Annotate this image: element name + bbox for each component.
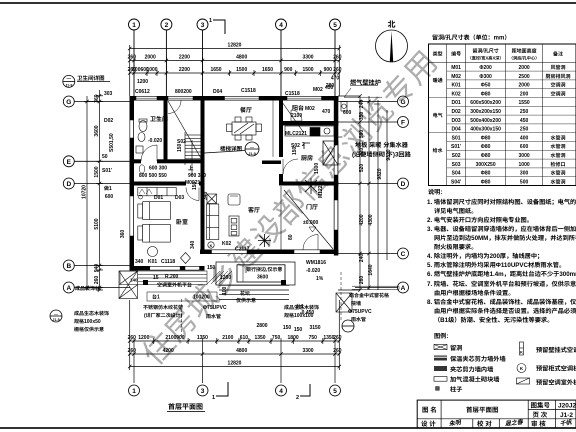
svg-text:K01: K01 — [148, 258, 157, 265]
svg-text:Φ300: Φ300 — [479, 73, 492, 80]
svg-text:470: 470 — [331, 75, 340, 82]
grid bubble A left — [63, 282, 74, 293]
window C1518 balcony — [287, 96, 322, 100]
svg-text:地板 采暖 分集水器: 地板 采暖 分集水器 — [355, 140, 409, 149]
legend 预留空调室外机 — [517, 378, 530, 384]
svg-text:S04: S04 — [452, 170, 461, 177]
svg-text:500: 500 — [520, 178, 529, 185]
svg-text:340: 340 — [189, 240, 196, 249]
svg-text:（直径/宽X高X深）: （直径/宽X高X深） — [468, 56, 504, 62]
svg-text:150: 150 — [176, 143, 183, 152]
svg-text:电气: 电气 — [433, 112, 443, 119]
stair labels — [176, 138, 206, 190]
svg-text:(沿便墙侧砌 下)3回路: (沿便墙侧砌 下)3回路 — [352, 150, 412, 159]
svg-text:Φ80: Φ80 — [481, 143, 491, 150]
svg-text:1: 1 — [209, 16, 212, 24]
section mark 1 bottom — [216, 382, 228, 396]
svg-text:—: — — [250, 144, 254, 150]
svg-text:1350: 1350 — [254, 334, 265, 341]
wall left exterior — [130, 96, 135, 271]
washer box — [136, 146, 143, 153]
svg-text:S501,50: S501,50 — [108, 133, 115, 152]
svg-text:F: F — [401, 117, 405, 127]
svg-text:2: 2 — [296, 393, 299, 401]
grid bubble C right — [398, 248, 409, 259]
svg-text:由用户根据实际条件选择是否设置。选择的产品必须符合国: 由用户根据实际条件选择是否设置。选择的产品必须符合国 — [434, 306, 576, 315]
svg-text:3600: 3600 — [257, 274, 268, 281]
wall bottom C — [200, 250, 338, 255]
steps — [219, 284, 289, 286]
svg-text:-0.020: -0.020 — [306, 267, 320, 274]
svg-text:260: 260 — [358, 276, 365, 285]
svg-text:600 300: 600 300 — [149, 165, 167, 172]
coffee table — [229, 216, 239, 236]
svg-text:360: 360 — [119, 230, 126, 239]
svg-text:K01: K01 — [452, 82, 461, 89]
svg-text:编号: 编号 — [451, 51, 461, 58]
detail callout circle 卫生间详图 — [63, 75, 75, 87]
svg-text:D01: D01 — [452, 99, 461, 106]
svg-text:1200: 1200 — [220, 274, 231, 281]
svg-text:首层平面图: 首层平面图 — [466, 404, 499, 414]
dining screen line — [272, 100, 274, 157]
svg-text:3: 3 — [201, 19, 205, 29]
svg-text:1550: 1550 — [519, 99, 530, 106]
detail callout circle 楼梯详图 — [204, 142, 259, 156]
svg-text:C1518: C1518 — [285, 90, 300, 97]
svg-text:—: — — [67, 76, 72, 82]
svg-text:院墙: 院墙 — [351, 300, 361, 307]
grid bubble E left — [63, 156, 74, 167]
svg-text:详见电气图纸。: 详见电气图纸。 — [434, 206, 477, 215]
svg-text:3000: 3000 — [519, 152, 530, 159]
svg-text:100200: 100200 — [193, 294, 210, 301]
wardrobe — [138, 188, 176, 196]
svg-text:240: 240 — [358, 100, 365, 109]
svg-text:150: 150 — [191, 181, 198, 190]
window right wall M1221 — [334, 200, 338, 230]
foyer divider line — [280, 186, 282, 250]
svg-text:D03: D03 — [452, 117, 461, 124]
kitchen door arc — [283, 159, 298, 174]
svg-text:1500: 1500 — [313, 163, 320, 174]
svg-text:±0.000: ±0.000 — [303, 219, 318, 226]
left wall labels — [102, 90, 167, 179]
svg-text:1350: 1350 — [197, 334, 208, 341]
svg-text:C1118: C1118 — [161, 258, 175, 265]
svg-text:260: 260 — [128, 347, 137, 354]
toilet — [139, 121, 147, 132]
svg-text:1640: 1640 — [367, 264, 374, 275]
wall top exterior G — [130, 96, 339, 101]
svg-text:Φ200: Φ200 — [479, 64, 492, 71]
svg-text:1500: 1500 — [236, 66, 247, 73]
svg-text:590: 590 — [358, 130, 365, 139]
wall bedroom top D — [130, 182, 205, 186]
svg-text:阳台: 阳台 — [292, 103, 304, 112]
wall bottom bedroom B — [130, 266, 205, 271]
svg-text:D02: D02 — [452, 108, 461, 115]
round table bedroom — [148, 247, 158, 257]
grid bubble 4 top — [276, 19, 287, 30]
svg-text:栅格仅供示意: 栅格仅供示意 — [74, 326, 104, 333]
svg-text:500x400x200: 500x400x200 — [470, 117, 501, 124]
svg-text:2100: 2100 — [165, 334, 176, 341]
door gap E wall — [141, 159, 157, 164]
legend 柱子 symbol — [436, 387, 440, 391]
right dimension lines — [338, 96, 387, 290]
svg-text:M02: M02 — [313, 86, 323, 93]
svg-text:校 对: 校 对 — [477, 418, 492, 428]
porch hatch strip — [207, 271, 232, 284]
svg-text:朱明: 朱明 — [448, 417, 462, 428]
svg-text:花坛: 花坛 — [240, 290, 250, 297]
grid bubble F right — [398, 117, 409, 128]
svg-text:M1221: M1221 — [317, 182, 324, 198]
table body — [433, 77, 443, 154]
corridor basin — [139, 165, 145, 199]
north arrow — [376, 30, 408, 62]
svg-text:留洞/孔尺寸: 留洞/孔尺寸 — [472, 48, 498, 55]
svg-text:900: 900 — [284, 66, 293, 73]
svg-text:R.200: R.200 — [165, 273, 179, 280]
svg-text:卫生间: 卫生间 — [150, 114, 168, 123]
grid bubble G right — [398, 96, 409, 107]
svg-text:K02: K02 — [452, 90, 461, 97]
svg-text:150: 150 — [294, 326, 303, 333]
svg-text:图例:: 图例: — [434, 331, 448, 340]
grid bubble 5 top — [330, 19, 341, 30]
window left wall (bath) — [130, 120, 338, 270]
armchair — [228, 194, 240, 205]
wall right exterior — [334, 96, 339, 256]
sofa — [207, 194, 241, 240]
svg-text:K: K — [520, 350, 523, 356]
svg-text:铝合金中式窗花格: 铝合金中式窗花格 — [349, 292, 389, 299]
svg-text:520: 520 — [358, 164, 365, 173]
svg-text:预留柜式空调机: 预留柜式空调机 — [536, 364, 576, 373]
svg-text:260: 260 — [333, 334, 342, 341]
svg-text:北: 北 — [388, 19, 396, 30]
legend 预留壁挂式空调机 — [520, 342, 524, 355]
dim line row2 — [130, 60, 340, 62]
svg-text:K02: K02 — [222, 240, 231, 247]
AC platform left (hatched) — [119, 271, 138, 299]
svg-text:成品生态木装饰: 成品生态木装饰 — [74, 310, 109, 317]
svg-text:J1-9: J1-9 — [52, 318, 59, 323]
svg-text:D01: D01 — [154, 194, 163, 201]
svg-text:1200: 1200 — [138, 334, 149, 341]
svg-text:140: 140 — [130, 278, 138, 284]
svg-text:9820: 9820 — [376, 168, 383, 179]
grid bubble D left — [63, 178, 74, 189]
svg-text:S01: S01 — [452, 134, 461, 141]
svg-text:8. 铝合金中式窗花格、成品装饰柱、成品装饰基座，仅供示意: 8. 铝合金中式窗花格、成品装饰柱、成品装饰基座，仅供示意 — [427, 297, 576, 306]
svg-text:说明:: 说明: — [428, 187, 442, 196]
verticals — [446, 44, 448, 186]
svg-text:上: 上 — [188, 164, 194, 172]
svg-text:检修口: 检修口 — [550, 161, 565, 168]
svg-text:600: 600 — [520, 143, 529, 150]
svg-text:预留壁挂式空调机: 预留壁挂式空调机 — [536, 345, 576, 354]
svg-text:900: 900 — [176, 334, 185, 341]
wall kitchen left x4 upper — [279, 100, 283, 157]
table header text — [433, 48, 563, 62]
svg-text:3300: 3300 — [302, 54, 313, 61]
svg-text:1000: 1000 — [519, 161, 530, 168]
svg-text:燃气壁挂炉: 燃气壁挂炉 — [350, 78, 381, 87]
svg-text:暖通: 暖通 — [433, 77, 443, 84]
svg-text:S01': S01' — [102, 167, 112, 174]
grid bubble 4 bottom — [276, 385, 287, 396]
grid bubble 1 bottom — [129, 385, 140, 396]
section mark 2 kitchen — [304, 143, 310, 149]
sheet frame top line — [0, 2, 576, 4]
svg-text:雨水管: 雨水管 — [351, 316, 366, 323]
svg-text:厨房: 厨房 — [301, 153, 313, 162]
diagonal line stair hall — [168, 101, 202, 160]
svg-text:1650: 1650 — [210, 66, 221, 73]
svg-text:成品生态木装饰: 成品生态木装饰 — [284, 304, 319, 311]
svg-text:1200: 1200 — [137, 78, 148, 85]
svg-text:(详厂家二次设计): (详厂家二次设计) — [144, 312, 183, 319]
svg-text:夹芯剪力墙内墙: 夹芯剪力墙内墙 — [450, 365, 493, 374]
svg-text:400x300x150: 400x300x150 — [470, 126, 501, 133]
grid bubble B left — [63, 260, 74, 271]
svg-text:M01: M01 — [451, 64, 461, 71]
door arc D04 stair — [168, 101, 181, 114]
detail callout circle bottom left — [50, 310, 62, 322]
svg-text:加气混凝土砌块墙: 加气混凝土砌块墙 — [450, 375, 500, 384]
svg-text:—: — — [54, 311, 58, 317]
rain pipe dashed right — [340, 272, 342, 322]
svg-text:M02: M02 — [451, 73, 461, 80]
svg-text:首层平面图: 首层平面图 — [168, 402, 203, 412]
svg-text:C0612: C0612 — [135, 88, 150, 95]
diagonal line foyer — [284, 190, 333, 249]
sink — [138, 133, 145, 142]
svg-text:G: G — [66, 96, 71, 106]
svg-text:C: C — [401, 248, 406, 258]
grid bubble 1 top — [129, 19, 140, 30]
svg-text:水管洞: 水管洞 — [550, 134, 565, 141]
svg-text:1800: 1800 — [288, 334, 299, 341]
left dimension lines — [84, 90, 103, 290]
legend 保温夹芯剪力墙外墙 symbol — [434, 356, 447, 361]
svg-text:WM1816: WM1816 — [306, 259, 326, 266]
svg-text:1500: 1500 — [302, 66, 313, 73]
svg-text:D: D — [66, 178, 71, 188]
svg-text:留洞: 留洞 — [450, 343, 462, 352]
svg-text:S03: S03 — [452, 161, 461, 168]
svg-text:4: 4 — [279, 385, 283, 395]
wall balcony F — [279, 121, 338, 126]
svg-text:由用户根据楼场地条件设置。: 由用户根据楼场地条件设置。 — [434, 288, 514, 297]
svg-text:610: 610 — [240, 334, 249, 341]
door arc bedroom — [186, 188, 199, 201]
svg-text:1500: 1500 — [93, 166, 100, 177]
rain pipe dashed — [181, 299, 183, 338]
svg-text:楼梯详图: 楼梯详图 — [220, 145, 243, 153]
grid bubble 3 top — [197, 19, 208, 30]
svg-text:250: 250 — [520, 126, 529, 133]
porch pillar right — [281, 280, 286, 285]
svg-text:Φ80: Φ80 — [481, 90, 491, 97]
svg-text:G: G — [400, 96, 405, 106]
svg-text:15: 15 — [153, 274, 159, 281]
svg-text:1%: 1% — [316, 275, 324, 282]
svg-text:250: 250 — [520, 108, 529, 115]
svg-text:门厅: 门厅 — [306, 202, 318, 211]
AC platform texts — [130, 273, 314, 316]
door D04 opening — [168, 96, 193, 100]
svg-text:400: 400 — [520, 134, 529, 141]
balcony door arc — [291, 110, 302, 121]
right texts — [352, 140, 412, 159]
svg-text:仅供示意: 仅供示意 — [236, 297, 256, 304]
svg-text:S02: S02 — [452, 152, 461, 159]
svg-text:2100: 2100 — [222, 334, 233, 341]
svg-text:Φ75UPVC: Φ75UPVC — [348, 308, 372, 315]
svg-text:3: 3 — [201, 385, 205, 395]
svg-text:Φ75UPVC: Φ75UPVC — [203, 304, 227, 311]
section mark 2 bottom — [300, 384, 310, 396]
svg-text:台1: 台1 — [152, 294, 160, 301]
svg-text:距地面高度: 距地面高度 — [512, 48, 537, 55]
svg-text:（洞底/孔中心）: （洞底/孔中心） — [509, 56, 539, 62]
svg-text:340: 340 — [135, 258, 144, 265]
level triangle foyer — [309, 227, 316, 232]
svg-text:D02: D02 — [104, 117, 113, 124]
left grid bubbles — [63, 96, 130, 293]
svg-text:-0.020: -0.020 — [148, 137, 162, 144]
svg-text:1650: 1650 — [262, 66, 273, 73]
svg-text:300X250: 300X250 — [476, 161, 496, 168]
svg-text:A: A — [401, 282, 406, 292]
grid bubble 5 bottom — [330, 385, 341, 396]
kitchen AC box hatched — [323, 141, 338, 165]
svg-text:水管洞: 水管洞 — [550, 143, 565, 150]
svg-text:C1518: C1518 — [241, 87, 256, 94]
window C1518 dining — [225, 96, 260, 100]
svg-text:D03: D03 — [175, 194, 184, 201]
windows (thin double lines) in top wall — [136, 96, 322, 100]
kitchen counter — [285, 126, 334, 136]
svg-text:4200: 4200 — [358, 214, 365, 225]
svg-text:360: 360 — [93, 94, 100, 103]
svg-text:成品装饰柱: 成品装饰柱 — [75, 285, 100, 292]
svg-text:300: 300 — [520, 170, 529, 177]
svg-text:空调洞: 空调洞 — [550, 90, 565, 97]
svg-text:餐厅: 餐厅 — [240, 105, 252, 114]
extension lines top — [129, 45, 131, 96]
bedroom window labels — [135, 240, 196, 265]
legend 预留柜式空调机 — [517, 364, 526, 373]
dining table — [227, 117, 262, 140]
svg-text:B: B — [66, 260, 71, 270]
svg-text:4200: 4200 — [163, 347, 174, 354]
svg-text:银行挠边,仅示意: 银行挠边,仅示意 — [246, 266, 282, 273]
section mark 1 top — [213, 20, 225, 34]
svg-text:图 名: 图 名 — [422, 404, 437, 414]
svg-text:150: 150 — [207, 264, 216, 271]
svg-text:厨房排风洞: 厨房排风洞 — [545, 73, 570, 80]
svg-text:900: 900 — [324, 66, 333, 73]
svg-text:C2117: C2117 — [235, 246, 250, 253]
plant box living corner — [207, 194, 217, 204]
svg-text:5: 5 — [333, 19, 337, 29]
window bedroom bottom C1118 — [150, 266, 180, 270]
svg-text:类型: 类型 — [433, 51, 443, 58]
window door labels top wall — [135, 84, 334, 97]
svg-text:卫生间详图: 卫生间详图 — [77, 74, 105, 82]
kitchen door plant — [305, 178, 317, 194]
svg-text:J1-9: J1-9 — [65, 84, 72, 89]
svg-text:D04: D04 — [213, 88, 222, 95]
svg-text:水管洞: 水管洞 — [550, 152, 565, 159]
wall kitchen bottom D — [279, 182, 338, 186]
svg-text:100: 100 — [221, 286, 228, 295]
svg-text:470: 470 — [322, 108, 331, 115]
svg-text:J1-9: J1-9 — [248, 152, 256, 157]
svg-text:不锈钢仿木纹花架: 不锈钢仿木纹花架 — [143, 304, 183, 311]
svg-text:260: 260 — [93, 276, 100, 285]
detail callout circle bottom mid — [342, 320, 354, 332]
entry door arc — [303, 235, 318, 250]
svg-text:303: 303 — [104, 90, 113, 97]
svg-text:K: K — [210, 244, 213, 249]
bottom grid bubbles — [129, 385, 341, 396]
svg-text:备注: 备注 — [553, 51, 563, 58]
svg-text:450: 450 — [325, 84, 334, 91]
svg-text:雨水管: 雨水管 — [206, 313, 221, 320]
svg-text:2800: 2800 — [256, 322, 267, 329]
svg-text:600: 600 — [105, 193, 114, 200]
svg-text:3600: 3600 — [93, 125, 100, 136]
svg-text:水管洞: 水管洞 — [550, 178, 565, 185]
svg-text:5100: 5100 — [93, 218, 100, 229]
grid bubble D right — [398, 178, 409, 189]
gas boiler symbol — [341, 102, 347, 112]
dining kitchen wall stub — [262, 161, 281, 165]
svg-text:2: 2 — [165, 19, 169, 29]
svg-text:留洞/孔尺寸表（单位：mm）: 留洞/孔尺寸表（单位：mm） — [432, 33, 510, 42]
header bottom — [429, 61, 576, 63]
svg-text:5. 雨水管除注明外均采用Φ110UPVC材质雨水管。: 5. 雨水管除注明外均采用Φ110UPVC材质雨水管。 — [427, 260, 565, 269]
window diamond marker — [181, 253, 191, 264]
svg-text:750: 750 — [309, 334, 318, 341]
grid bubble G left — [63, 96, 74, 107]
svg-text:Φ80: Φ80 — [481, 152, 491, 159]
svg-text:网片至边到边50MM，抹灰并做防火处理，并达到所在墙体的: 网片至边到边50MM，抹灰并做防火处理，并达到所在墙体的 — [434, 233, 576, 242]
svg-text:4. 除注明外，内墙均为200厚，轴线居中；: 4. 除注明外，内墙均为200厚，轴线居中； — [427, 251, 543, 260]
svg-text:6. 燃气壁挂炉炉底距地1.4m，距离灶台边不少于300mm: 6. 燃气壁挂炉炉底距地1.4m，距离灶台边不少于300mm。 — [427, 269, 576, 278]
svg-text:4800: 4800 — [236, 347, 247, 354]
svg-text:1: 1 — [132, 385, 136, 395]
svg-text:4300: 4300 — [367, 214, 374, 225]
svg-text:（B1级）防潮、安全性、无污染性等要求。: （B1级）防潮、安全性、无污染性等要求。 — [434, 315, 553, 324]
fence lines right — [352, 286, 399, 289]
wall interior bathroom right — [164, 96, 168, 163]
svg-text:D04: D04 — [452, 126, 461, 133]
bed 1 — [138, 188, 191, 264]
svg-text:Φ80: Φ80 — [481, 170, 491, 177]
porch dims — [207, 264, 231, 295]
svg-text:给水: 给水 — [433, 147, 443, 154]
porch pillar left — [143, 280, 148, 285]
AC platform right (hatched) — [336, 293, 352, 312]
svg-text:空调洞: 空调洞 — [550, 82, 565, 89]
